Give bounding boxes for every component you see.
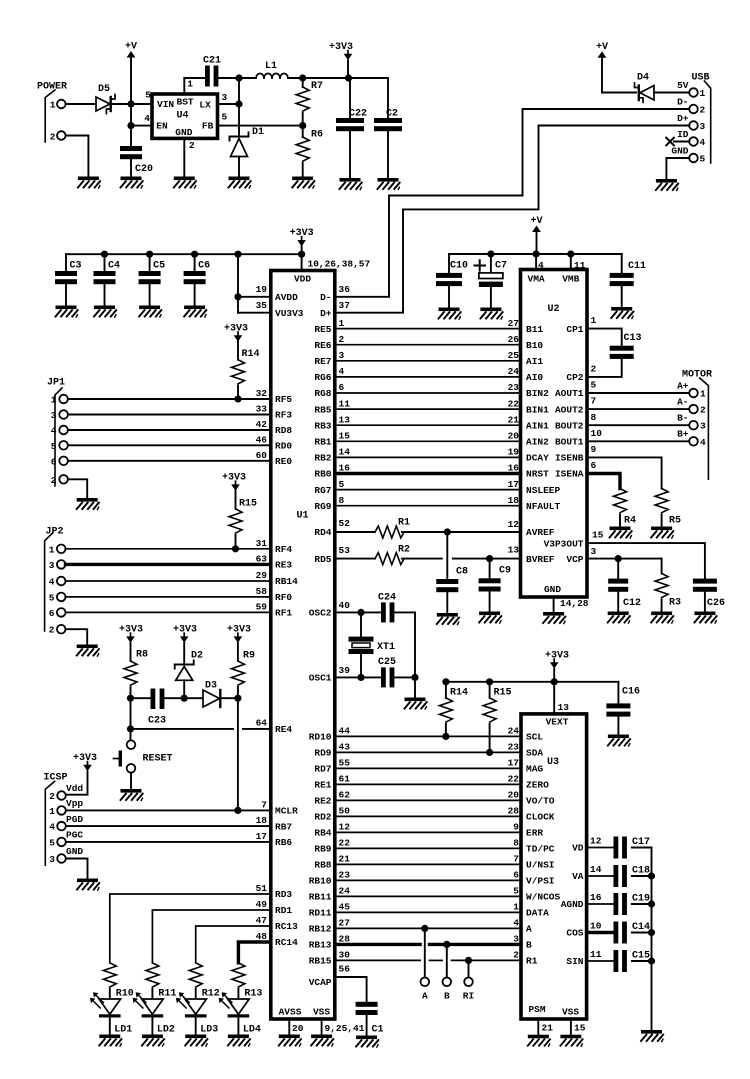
svg-text:LX: LX xyxy=(199,100,211,111)
svg-text:1: 1 xyxy=(49,544,55,555)
svg-text:D5: D5 xyxy=(98,84,110,95)
svg-text:D+: D+ xyxy=(320,308,332,319)
svg-text:RB10: RB10 xyxy=(309,876,332,887)
svg-text:VSS: VSS xyxy=(313,1007,330,1018)
svg-text:63: 63 xyxy=(256,554,268,565)
svg-text:12: 12 xyxy=(339,822,351,833)
svg-text:B-: B- xyxy=(677,413,688,424)
svg-text:2: 2 xyxy=(189,140,195,151)
svg-text:POWER: POWER xyxy=(37,82,67,93)
svg-text:12: 12 xyxy=(508,519,520,530)
svg-text:6: 6 xyxy=(591,460,597,471)
svg-text:C25: C25 xyxy=(378,657,396,668)
svg-text:15: 15 xyxy=(574,1023,586,1034)
svg-text:45: 45 xyxy=(339,902,351,913)
svg-text:14: 14 xyxy=(339,447,351,458)
svg-text:16: 16 xyxy=(590,892,602,903)
svg-text:AGND: AGND xyxy=(561,899,584,910)
svg-text:RD9: RD9 xyxy=(314,748,331,759)
svg-text:B: B xyxy=(526,940,532,951)
svg-text:RC14: RC14 xyxy=(275,937,298,948)
svg-text:USB: USB xyxy=(692,73,710,84)
svg-text:21: 21 xyxy=(339,854,351,865)
svg-text:5: 5 xyxy=(49,592,55,603)
svg-text:58: 58 xyxy=(256,586,268,597)
svg-text:VA: VA xyxy=(572,871,584,882)
svg-text:VD: VD xyxy=(572,843,584,854)
svg-text:48: 48 xyxy=(256,931,268,942)
svg-text:D3: D3 xyxy=(205,681,217,692)
svg-text:ERR: ERR xyxy=(526,828,543,839)
svg-text:52: 52 xyxy=(339,518,351,529)
svg-text:RE1: RE1 xyxy=(314,780,331,791)
svg-text:AIN1: AIN1 xyxy=(526,420,549,431)
svg-text:20: 20 xyxy=(508,790,520,801)
svg-text:VCP: VCP xyxy=(566,554,583,565)
svg-text:5: 5 xyxy=(49,837,55,848)
svg-text:50: 50 xyxy=(339,806,351,817)
svg-text:4: 4 xyxy=(700,437,706,448)
svg-text:8: 8 xyxy=(513,838,519,849)
svg-text:RF1: RF1 xyxy=(275,608,292,619)
svg-text:DATA: DATA xyxy=(526,908,549,919)
svg-text:RE2: RE2 xyxy=(314,796,331,807)
svg-text:6: 6 xyxy=(513,870,519,881)
svg-text:RESET: RESET xyxy=(143,754,173,765)
svg-text:4: 4 xyxy=(339,366,345,377)
svg-text:7: 7 xyxy=(261,800,267,811)
svg-text:2: 2 xyxy=(591,364,597,375)
svg-text:2: 2 xyxy=(50,132,56,143)
svg-text:53: 53 xyxy=(339,545,351,556)
svg-text:C5: C5 xyxy=(153,261,165,272)
svg-text:ID: ID xyxy=(677,129,689,140)
svg-text:3: 3 xyxy=(49,560,55,571)
svg-text:62: 62 xyxy=(339,790,351,801)
svg-text:17: 17 xyxy=(508,758,520,769)
svg-text:VIN: VIN xyxy=(157,99,174,110)
svg-text:LD4: LD4 xyxy=(243,1025,261,1036)
svg-text:C12: C12 xyxy=(623,598,641,609)
svg-text:22: 22 xyxy=(508,398,520,409)
svg-text:16: 16 xyxy=(339,463,351,474)
svg-text:27: 27 xyxy=(508,318,520,329)
svg-text:RD1: RD1 xyxy=(275,905,292,916)
svg-text:U/NSI: U/NSI xyxy=(526,860,555,871)
svg-text:RB12: RB12 xyxy=(309,924,332,935)
svg-text:RB9: RB9 xyxy=(314,844,331,855)
svg-text:29: 29 xyxy=(256,570,268,581)
svg-text:26: 26 xyxy=(508,334,520,345)
svg-text:RC13: RC13 xyxy=(275,921,298,932)
svg-text:RD11: RD11 xyxy=(309,908,332,919)
svg-text:20: 20 xyxy=(292,1023,304,1034)
svg-text:RD4: RD4 xyxy=(314,527,331,538)
svg-text:RD3: RD3 xyxy=(275,889,292,900)
svg-text:11: 11 xyxy=(574,260,586,271)
svg-text:3: 3 xyxy=(339,350,345,361)
svg-text:2: 2 xyxy=(339,334,345,345)
svg-text:R4: R4 xyxy=(624,516,636,527)
svg-text:R1: R1 xyxy=(526,956,538,967)
svg-text:36: 36 xyxy=(339,284,351,295)
svg-text:11: 11 xyxy=(339,398,351,409)
svg-text:5: 5 xyxy=(222,112,228,123)
svg-text:OSC1: OSC1 xyxy=(309,673,332,684)
svg-text:43: 43 xyxy=(339,742,351,753)
svg-text:ZERO: ZERO xyxy=(526,780,549,791)
svg-text:B11: B11 xyxy=(526,324,543,335)
svg-text:R12: R12 xyxy=(202,989,220,1000)
svg-text:R8: R8 xyxy=(136,650,148,661)
svg-text:5: 5 xyxy=(700,154,706,165)
svg-text:JP2: JP2 xyxy=(46,527,64,538)
svg-text:SCL: SCL xyxy=(526,732,543,743)
svg-text:C3: C3 xyxy=(70,261,82,272)
svg-text:R6: R6 xyxy=(311,130,323,141)
svg-text:59: 59 xyxy=(256,602,268,613)
svg-text:C17: C17 xyxy=(632,837,650,848)
svg-text:42: 42 xyxy=(256,419,268,430)
svg-text:4: 4 xyxy=(51,426,57,437)
svg-text:A-: A- xyxy=(677,397,688,408)
svg-text:39: 39 xyxy=(339,665,351,676)
svg-text:17: 17 xyxy=(508,479,520,490)
svg-text:C20: C20 xyxy=(135,164,153,175)
svg-text:23: 23 xyxy=(508,382,520,393)
svg-text:D-: D- xyxy=(320,292,331,303)
svg-text:1: 1 xyxy=(51,395,57,406)
svg-text:VSS: VSS xyxy=(562,1007,579,1018)
svg-text:TD/PC: TD/PC xyxy=(526,844,555,855)
svg-text:CLOCK: CLOCK xyxy=(526,812,555,823)
svg-text:JP1: JP1 xyxy=(47,378,65,389)
svg-text:U3: U3 xyxy=(547,757,559,768)
svg-text:R10: R10 xyxy=(116,989,134,1000)
svg-text:RB15: RB15 xyxy=(309,956,332,967)
svg-text:7: 7 xyxy=(591,396,597,407)
svg-text:RB14: RB14 xyxy=(275,576,298,587)
svg-text:RG9: RG9 xyxy=(314,501,331,512)
svg-text:C13: C13 xyxy=(624,333,642,344)
svg-text:C21: C21 xyxy=(203,56,221,67)
svg-text:GND: GND xyxy=(544,584,561,595)
svg-text:AVSS: AVSS xyxy=(279,1007,302,1018)
svg-text:1: 1 xyxy=(591,315,597,326)
svg-text:2: 2 xyxy=(700,405,706,416)
svg-text:R14: R14 xyxy=(450,688,468,699)
svg-text:R14: R14 xyxy=(242,349,260,360)
svg-text:+3V3: +3V3 xyxy=(73,753,97,764)
svg-text:C1: C1 xyxy=(372,1025,384,1036)
svg-text:RE3: RE3 xyxy=(275,560,292,571)
svg-text:24: 24 xyxy=(508,726,520,737)
svg-text:23: 23 xyxy=(508,742,520,753)
svg-text:A+: A+ xyxy=(677,380,689,391)
svg-text:5: 5 xyxy=(339,479,345,490)
svg-text:47: 47 xyxy=(256,915,268,926)
svg-text:RE5: RE5 xyxy=(314,324,331,335)
svg-text:U2: U2 xyxy=(547,304,559,315)
svg-text:4: 4 xyxy=(538,260,544,271)
svg-text:RF3: RF3 xyxy=(275,410,292,421)
svg-text:8: 8 xyxy=(591,412,597,423)
svg-text:13: 13 xyxy=(508,544,520,555)
svg-text:9,25,41: 9,25,41 xyxy=(325,1023,365,1034)
svg-text:4: 4 xyxy=(700,137,706,148)
svg-text:14: 14 xyxy=(590,864,602,875)
svg-text:RD0: RD0 xyxy=(275,441,292,452)
svg-text:C7: C7 xyxy=(495,261,507,272)
svg-text:AVDD: AVDD xyxy=(275,292,298,303)
svg-text:R9: R9 xyxy=(243,651,255,662)
svg-text:20: 20 xyxy=(508,431,520,442)
svg-text:D-: D- xyxy=(677,97,688,108)
svg-text:6: 6 xyxy=(49,608,55,619)
svg-text:14,28: 14,28 xyxy=(560,598,589,609)
svg-text:DCAY: DCAY xyxy=(526,453,549,464)
svg-text:5: 5 xyxy=(513,886,519,897)
svg-text:37: 37 xyxy=(339,300,351,311)
svg-text:RI: RI xyxy=(463,991,474,1002)
svg-text:56: 56 xyxy=(339,964,351,975)
svg-text:BIN1: BIN1 xyxy=(526,404,549,415)
svg-text:C6: C6 xyxy=(198,261,210,272)
svg-text:C22: C22 xyxy=(349,109,367,120)
svg-text:+3V3: +3V3 xyxy=(224,323,248,334)
svg-text:D1: D1 xyxy=(252,127,264,138)
svg-text:2: 2 xyxy=(51,475,57,486)
svg-text:4: 4 xyxy=(513,918,519,929)
svg-text:+3V3: +3V3 xyxy=(227,625,251,636)
svg-text:3: 3 xyxy=(51,410,57,421)
svg-text:RB4: RB4 xyxy=(314,828,331,839)
svg-text:49: 49 xyxy=(256,899,268,910)
svg-text:VCAP: VCAP xyxy=(309,977,332,988)
svg-text:3: 3 xyxy=(222,92,228,103)
svg-text:AVREF: AVREF xyxy=(526,527,555,538)
svg-text:CP1: CP1 xyxy=(566,324,583,335)
svg-text:18: 18 xyxy=(256,815,268,826)
svg-text:11: 11 xyxy=(590,949,602,960)
svg-text:1: 1 xyxy=(700,88,706,99)
svg-text:10: 10 xyxy=(590,920,602,931)
svg-text:RE0: RE0 xyxy=(275,456,292,467)
svg-text:8: 8 xyxy=(339,495,345,506)
svg-text:NFAULT: NFAULT xyxy=(526,501,561,512)
svg-text:9: 9 xyxy=(513,822,519,833)
svg-text:RF5: RF5 xyxy=(275,394,292,405)
svg-text:R11: R11 xyxy=(158,989,176,1000)
svg-text:RB7: RB7 xyxy=(275,821,292,832)
svg-text:BIN2: BIN2 xyxy=(526,388,549,399)
svg-text:+3V3: +3V3 xyxy=(222,473,246,484)
svg-text:OSC2: OSC2 xyxy=(309,608,332,619)
svg-text:3: 3 xyxy=(513,934,519,945)
svg-text:R3: R3 xyxy=(669,598,681,609)
svg-text:GND: GND xyxy=(671,146,688,157)
svg-text:35: 35 xyxy=(256,300,268,311)
svg-text:AIN2: AIN2 xyxy=(526,437,549,448)
svg-text:2: 2 xyxy=(513,950,519,961)
svg-text:40: 40 xyxy=(339,600,351,611)
svg-text:1: 1 xyxy=(50,100,56,111)
svg-text:CP2: CP2 xyxy=(566,372,583,383)
svg-text:BVREF: BVREF xyxy=(526,554,555,565)
svg-text:RB3: RB3 xyxy=(314,420,331,431)
svg-text:AOUT2: AOUT2 xyxy=(555,404,584,415)
svg-text:1: 1 xyxy=(339,318,345,329)
svg-text:19: 19 xyxy=(508,447,520,458)
svg-text:BOUT1: BOUT1 xyxy=(555,437,584,448)
svg-text:RE6: RE6 xyxy=(314,340,331,351)
svg-text:L1: L1 xyxy=(265,61,277,72)
svg-text:16: 16 xyxy=(508,463,520,474)
svg-text:BST: BST xyxy=(177,97,194,108)
svg-text:LD2: LD2 xyxy=(157,1025,175,1036)
svg-text:Vpp: Vpp xyxy=(66,798,83,809)
svg-text:4: 4 xyxy=(49,822,55,833)
svg-text:LD3: LD3 xyxy=(200,1025,218,1036)
svg-text:VU3V3: VU3V3 xyxy=(275,308,304,319)
svg-text:D4: D4 xyxy=(637,73,649,84)
svg-text:23: 23 xyxy=(339,870,351,881)
svg-text:VDD: VDD xyxy=(294,274,311,285)
svg-text:C19: C19 xyxy=(632,894,650,905)
svg-text:R13: R13 xyxy=(244,989,262,1000)
svg-text:46: 46 xyxy=(256,435,268,446)
svg-text:RB8: RB8 xyxy=(314,860,331,871)
svg-text:RD8: RD8 xyxy=(275,425,292,436)
svg-text:C18: C18 xyxy=(632,866,650,877)
svg-text:28: 28 xyxy=(339,934,351,945)
svg-text:22: 22 xyxy=(339,838,351,849)
svg-text:4: 4 xyxy=(144,113,150,124)
svg-text:32: 32 xyxy=(256,388,268,399)
svg-text:3: 3 xyxy=(700,121,706,132)
svg-text:FB: FB xyxy=(202,121,214,132)
svg-text:30: 30 xyxy=(339,950,351,961)
svg-text:9: 9 xyxy=(591,444,597,455)
svg-text:4: 4 xyxy=(49,577,55,588)
svg-text:22: 22 xyxy=(508,774,520,785)
svg-text:24: 24 xyxy=(508,366,520,377)
svg-text:W/NCOS: W/NCOS xyxy=(526,892,561,903)
svg-text:1: 1 xyxy=(700,389,706,400)
svg-text:GND: GND xyxy=(66,846,83,857)
svg-text:33: 33 xyxy=(256,404,268,415)
svg-text:15: 15 xyxy=(339,431,351,442)
svg-text:V3P3OUT: V3P3OUT xyxy=(544,538,584,549)
svg-text:LD1: LD1 xyxy=(114,1025,132,1036)
svg-text:RB2: RB2 xyxy=(314,453,331,464)
svg-text:27: 27 xyxy=(339,918,351,929)
svg-text:BOUT2: BOUT2 xyxy=(555,420,584,431)
svg-text:60: 60 xyxy=(256,450,268,461)
svg-text:RD5: RD5 xyxy=(314,554,331,565)
svg-text:15: 15 xyxy=(592,530,604,541)
svg-text:13: 13 xyxy=(339,414,351,425)
svg-text:A: A xyxy=(526,924,532,935)
svg-text:PGD: PGD xyxy=(66,814,83,825)
svg-text:C9: C9 xyxy=(499,566,511,577)
svg-text:ISENB: ISENB xyxy=(555,453,584,464)
svg-text:21: 21 xyxy=(542,1023,554,1034)
svg-text:RD7: RD7 xyxy=(314,764,331,775)
svg-text:NSLEEP: NSLEEP xyxy=(526,485,561,496)
svg-text:RB1: RB1 xyxy=(314,437,331,448)
svg-text:3: 3 xyxy=(591,546,597,557)
svg-text:10,26,38,57: 10,26,38,57 xyxy=(308,259,371,270)
svg-text:B+: B+ xyxy=(677,429,689,440)
svg-text:C16: C16 xyxy=(622,687,640,698)
svg-text:44: 44 xyxy=(339,726,351,737)
svg-text:7: 7 xyxy=(513,854,519,865)
svg-text:PSM: PSM xyxy=(528,1004,545,1015)
svg-text:2: 2 xyxy=(700,105,706,116)
svg-text:R5: R5 xyxy=(669,516,681,527)
svg-text:5: 5 xyxy=(145,90,151,101)
svg-text:1: 1 xyxy=(513,902,519,913)
svg-text:RB5: RB5 xyxy=(314,404,331,415)
svg-text:D+: D+ xyxy=(677,113,689,124)
svg-text:ICSP: ICSP xyxy=(44,773,68,784)
svg-text:VMA: VMA xyxy=(528,274,545,285)
svg-text:RG8: RG8 xyxy=(314,388,331,399)
svg-text:RE4: RE4 xyxy=(275,724,292,735)
svg-text:+3V3: +3V3 xyxy=(329,42,353,53)
svg-text:A: A xyxy=(422,991,428,1002)
svg-text:13: 13 xyxy=(558,702,570,713)
svg-text:R15: R15 xyxy=(494,688,512,699)
svg-text:+3V3: +3V3 xyxy=(545,651,569,662)
svg-text:C15: C15 xyxy=(632,951,650,962)
svg-text:51: 51 xyxy=(256,883,268,894)
svg-text:RF4: RF4 xyxy=(275,544,292,555)
svg-text:VEXT: VEXT xyxy=(546,717,569,728)
svg-text:RF0: RF0 xyxy=(275,592,292,603)
svg-text:C23: C23 xyxy=(148,716,166,727)
svg-text:V/PSI: V/PSI xyxy=(526,876,555,887)
svg-text:C14: C14 xyxy=(632,922,650,933)
svg-text:5V: 5V xyxy=(677,80,689,91)
svg-text:ISENA: ISENA xyxy=(555,469,584,480)
svg-text:28: 28 xyxy=(508,806,520,817)
svg-text:1: 1 xyxy=(49,806,55,817)
svg-text:RD2: RD2 xyxy=(314,812,331,823)
svg-text:2: 2 xyxy=(49,791,55,802)
svg-text:RE7: RE7 xyxy=(314,356,331,367)
svg-text:55: 55 xyxy=(339,758,351,769)
svg-text:5: 5 xyxy=(51,441,57,452)
svg-text:18: 18 xyxy=(508,495,520,506)
svg-text:C26: C26 xyxy=(707,598,725,609)
svg-text:61: 61 xyxy=(339,774,351,785)
svg-text:10: 10 xyxy=(591,428,603,439)
svg-text:64: 64 xyxy=(256,718,268,729)
svg-text:C24: C24 xyxy=(378,593,396,604)
svg-text:R1: R1 xyxy=(398,518,410,529)
svg-text:RB13: RB13 xyxy=(309,940,332,951)
svg-text:GND: GND xyxy=(175,127,192,138)
svg-text:3: 3 xyxy=(49,854,55,865)
svg-text:C10: C10 xyxy=(450,261,468,272)
svg-text:PGC: PGC xyxy=(66,830,83,841)
svg-text:17: 17 xyxy=(256,831,268,842)
svg-text:12: 12 xyxy=(590,835,602,846)
svg-text:6: 6 xyxy=(51,456,57,467)
svg-text:R7: R7 xyxy=(311,81,323,92)
